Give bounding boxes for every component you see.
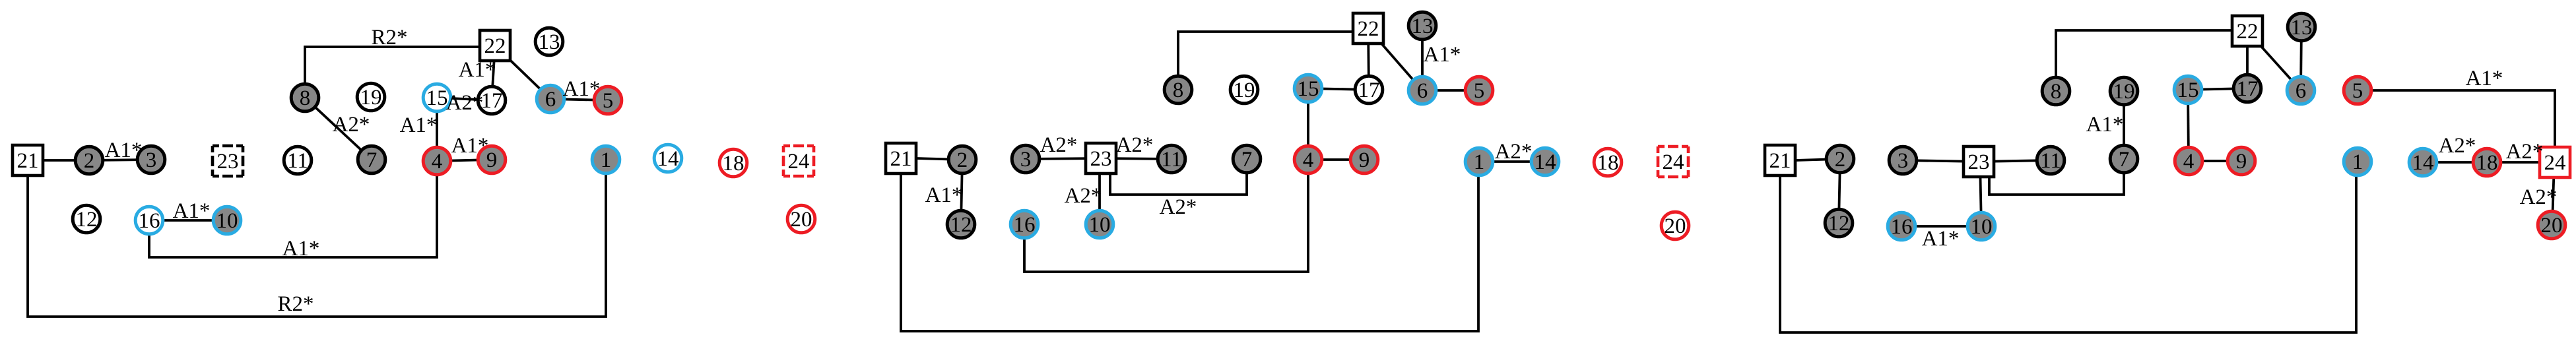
- svg-text:14: 14: [2412, 151, 2434, 175]
- svg-text:5: 5: [603, 89, 614, 113]
- svg-text:16: 16: [1891, 215, 1913, 239]
- svg-text:4: 4: [432, 150, 443, 173]
- svg-text:8: 8: [1173, 79, 1184, 102]
- svg-text:A2*: A2*: [1065, 184, 1102, 208]
- svg-text:24: 24: [1663, 150, 1684, 174]
- svg-text:1: 1: [1474, 150, 1485, 174]
- svg-text:A2*: A2*: [2506, 140, 2544, 164]
- svg-text:3: 3: [146, 148, 157, 172]
- svg-text:15: 15: [1298, 77, 1319, 101]
- svg-text:A1*: A1*: [925, 183, 963, 207]
- svg-text:23: 23: [1090, 147, 1112, 171]
- svg-text:4: 4: [2183, 150, 2195, 173]
- svg-text:19: 19: [1234, 79, 1255, 102]
- svg-text:10: 10: [216, 209, 238, 233]
- svg-text:8: 8: [300, 86, 311, 110]
- svg-text:24: 24: [788, 150, 810, 173]
- svg-text:A2*: A2*: [1116, 133, 1154, 157]
- svg-text:A2*: A2*: [1040, 133, 1078, 157]
- svg-text:12: 12: [950, 213, 972, 237]
- svg-text:13: 13: [539, 30, 560, 54]
- svg-text:A1*: A1*: [2466, 67, 2503, 90]
- svg-text:A2*: A2*: [1160, 195, 1197, 219]
- svg-text:A1*: A1*: [1922, 227, 1960, 251]
- svg-text:A1*: A1*: [105, 139, 143, 162]
- svg-text:21: 21: [890, 147, 912, 171]
- svg-text:18: 18: [2476, 151, 2498, 175]
- svg-text:A1*: A1*: [451, 134, 489, 158]
- svg-text:1: 1: [601, 148, 612, 172]
- svg-text:22: 22: [1358, 17, 1379, 41]
- svg-text:11: 11: [287, 149, 308, 173]
- svg-text:13: 13: [1412, 15, 1434, 38]
- svg-text:11: 11: [2040, 149, 2061, 173]
- svg-text:18: 18: [1597, 151, 1619, 175]
- svg-text:14: 14: [657, 147, 679, 171]
- svg-text:10: 10: [1089, 213, 1111, 237]
- svg-text:R2*: R2*: [371, 26, 407, 49]
- svg-text:11: 11: [1161, 148, 1182, 172]
- svg-text:A2*: A2*: [446, 91, 484, 115]
- svg-text:A1*: A1*: [1424, 43, 1461, 67]
- svg-text:A2*: A2*: [2520, 185, 2558, 209]
- svg-text:3: 3: [1898, 149, 1909, 173]
- svg-text:2: 2: [957, 148, 968, 172]
- svg-text:15: 15: [426, 86, 448, 110]
- svg-text:24: 24: [2544, 151, 2566, 175]
- svg-text:A1*: A1*: [459, 58, 496, 82]
- svg-text:10: 10: [1971, 215, 1993, 239]
- svg-text:6: 6: [545, 88, 556, 111]
- svg-text:6: 6: [1417, 79, 1428, 103]
- svg-text:13: 13: [2291, 16, 2313, 40]
- svg-text:A2*: A2*: [2439, 134, 2476, 158]
- svg-text:A2*: A2*: [1495, 140, 1533, 164]
- svg-text:5: 5: [1474, 79, 1485, 103]
- svg-text:22: 22: [484, 34, 506, 58]
- svg-text:2: 2: [84, 149, 95, 173]
- svg-text:18: 18: [723, 152, 744, 175]
- svg-text:16: 16: [1014, 213, 1036, 237]
- svg-text:5: 5: [2352, 79, 2363, 103]
- svg-text:A2*: A2*: [333, 113, 370, 137]
- svg-text:4: 4: [1303, 148, 1314, 172]
- svg-text:A1*: A1*: [400, 113, 438, 137]
- svg-text:8: 8: [2051, 80, 2062, 104]
- svg-text:22: 22: [2237, 20, 2259, 44]
- svg-text:6: 6: [2295, 79, 2307, 103]
- svg-text:20: 20: [2541, 214, 2563, 237]
- svg-text:20: 20: [791, 208, 812, 232]
- svg-text:23: 23: [1968, 150, 1990, 174]
- svg-text:23: 23: [217, 150, 239, 173]
- svg-text:R2*: R2*: [277, 292, 314, 316]
- svg-text:7: 7: [2119, 148, 2130, 172]
- svg-text:20: 20: [1665, 214, 1686, 238]
- svg-text:9: 9: [1359, 148, 1370, 172]
- svg-text:17: 17: [2237, 77, 2259, 101]
- svg-text:19: 19: [360, 86, 382, 110]
- svg-text:3: 3: [1020, 148, 1032, 172]
- svg-text:14: 14: [1535, 150, 1556, 174]
- svg-text:15: 15: [2177, 79, 2199, 102]
- svg-text:A1*: A1*: [563, 77, 601, 101]
- svg-text:1: 1: [2352, 150, 2363, 174]
- svg-text:21: 21: [1769, 149, 1791, 173]
- svg-text:17: 17: [1358, 79, 1380, 102]
- svg-text:A1*: A1*: [282, 237, 320, 261]
- svg-text:2: 2: [1835, 148, 1846, 172]
- svg-text:7: 7: [366, 148, 378, 172]
- svg-text:17: 17: [481, 89, 503, 113]
- svg-text:9: 9: [2236, 150, 2247, 173]
- svg-text:12: 12: [76, 208, 98, 232]
- svg-text:16: 16: [139, 209, 160, 233]
- svg-text:7: 7: [1241, 148, 1253, 172]
- svg-text:12: 12: [1828, 212, 1850, 236]
- svg-text:19: 19: [2113, 80, 2135, 104]
- svg-text:A1*: A1*: [173, 199, 211, 223]
- svg-text:A1*: A1*: [2086, 113, 2124, 137]
- svg-text:21: 21: [17, 149, 39, 173]
